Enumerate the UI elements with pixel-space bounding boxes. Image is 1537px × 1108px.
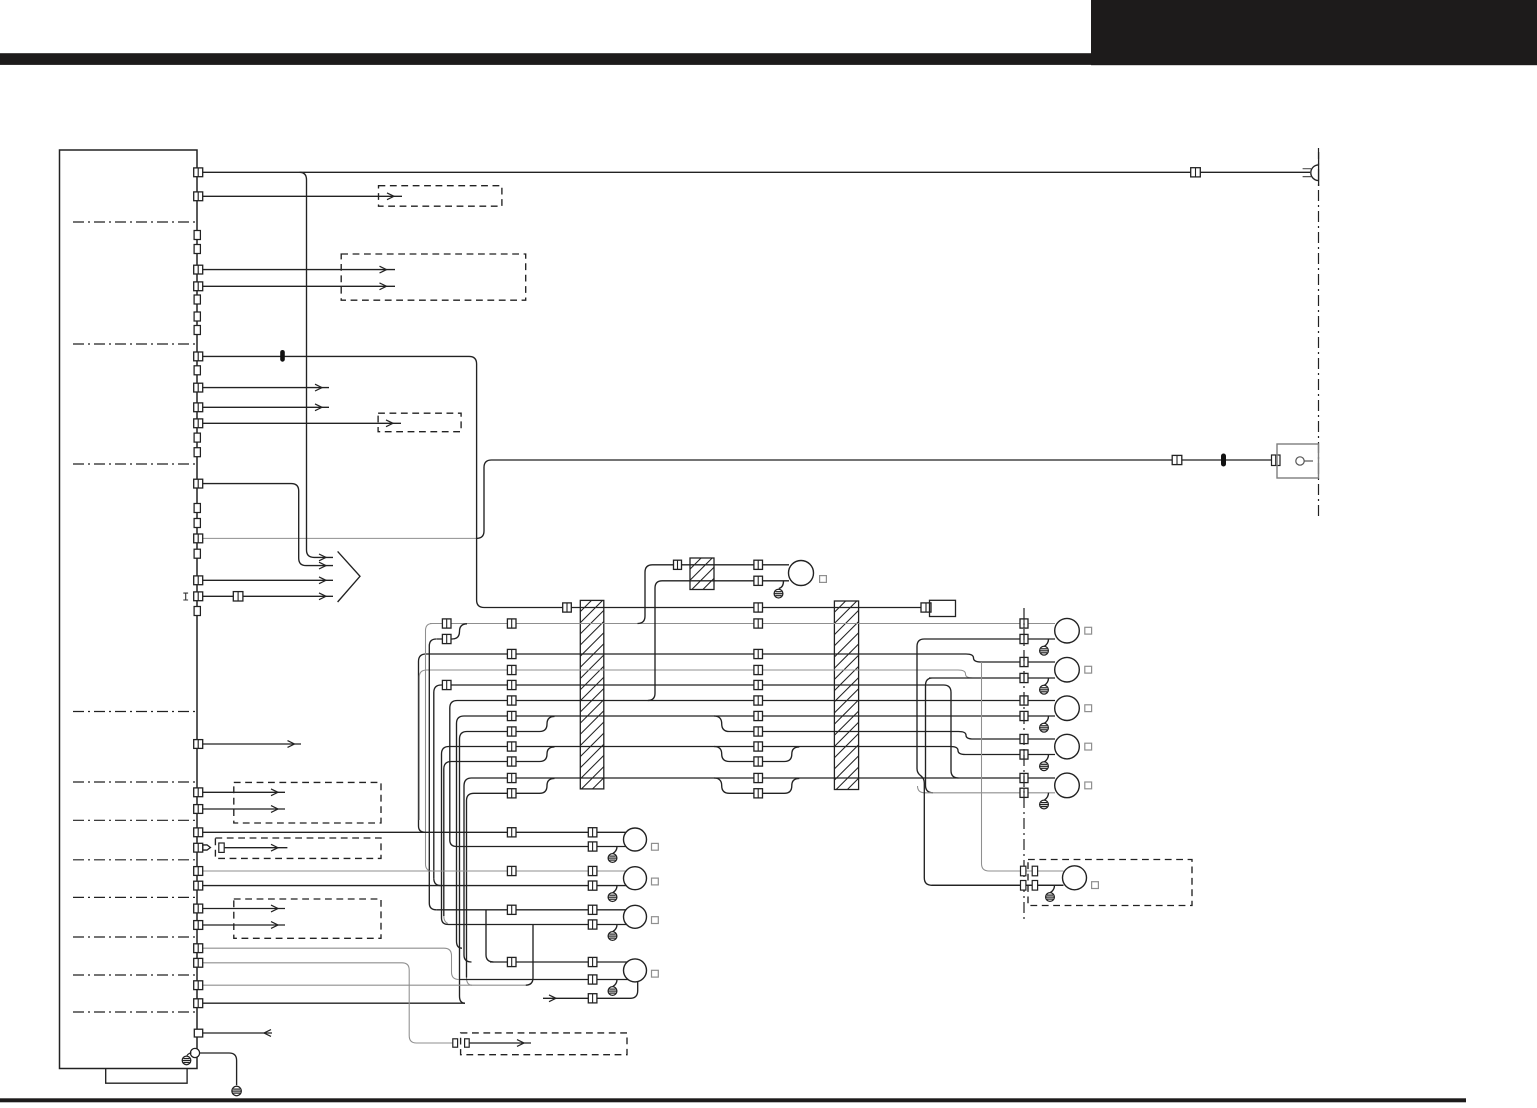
connector L1b <box>1020 634 1028 643</box>
connector E2 <box>754 665 763 674</box>
pin y1003 <box>194 999 203 1008</box>
relay box <box>1277 444 1319 478</box>
arrow pin404 <box>315 404 322 411</box>
connector D2 <box>754 649 763 658</box>
lamp 8 <box>624 905 647 928</box>
pin nc y508 <box>194 504 200 513</box>
pin y596 <box>194 592 203 601</box>
wire pin1032 <box>203 1032 272 1034</box>
pin ground circle <box>190 1048 199 1057</box>
riser I to lamp8 bottom <box>442 918 449 925</box>
wire D <box>419 654 1056 826</box>
wire pin268 <box>203 269 395 271</box>
connector H2 <box>754 711 763 720</box>
connector L4t <box>1020 734 1028 743</box>
arrow pin925 <box>271 922 278 929</box>
wire pin578 <box>203 579 333 581</box>
label square lamp6 <box>652 843 659 850</box>
dashed label box lamp10 <box>1028 860 1192 906</box>
connector L5b <box>1020 788 1028 797</box>
connector l8t2 <box>588 905 597 914</box>
ground stem lamp5 <box>1044 793 1048 800</box>
pin y848 <box>194 843 203 852</box>
connector E1 <box>507 665 516 674</box>
pin nc y611 <box>194 607 200 616</box>
ground unit wire <box>232 1086 241 1095</box>
wire pin925 <box>203 924 285 926</box>
wire Jp left <box>467 778 555 977</box>
connector pin595 <box>233 592 243 601</box>
section divider 2 <box>73 343 197 345</box>
pin nc y235 <box>194 231 200 240</box>
connector l8t1 <box>507 905 516 914</box>
section divider 11 <box>73 1011 197 1013</box>
lamp 6 <box>624 828 647 851</box>
riser Hp join row1003 <box>460 996 466 1003</box>
ground stem lamp6 <box>613 847 617 854</box>
connector top lamp 1 <box>674 560 682 569</box>
dash-dot solid at horn <box>1318 152 1320 186</box>
pin y172 <box>194 168 203 177</box>
bottom rule <box>0 1098 1466 1102</box>
connector Ip1 <box>507 757 516 766</box>
lamp 7 <box>624 867 647 890</box>
wire lamp7 bottom <box>203 885 628 887</box>
wire top lamp lower <box>648 581 789 701</box>
connector L3b <box>1020 711 1028 720</box>
connector A1 <box>563 603 572 612</box>
connector F2 <box>507 680 516 689</box>
wire G <box>450 701 1055 841</box>
pin y948 <box>194 944 203 953</box>
wire pin845 <box>225 847 288 849</box>
pin nc y370 <box>194 366 200 375</box>
wire relay run <box>476 460 1276 538</box>
connector B2 <box>507 619 516 628</box>
arrow pin845 <box>271 844 278 851</box>
pin nc y438 <box>194 433 200 442</box>
connector horn <box>1191 168 1201 177</box>
connector J1 <box>507 773 516 782</box>
wire pin595 <box>203 595 333 597</box>
wire lamp9 arrow row <box>543 981 638 998</box>
connector F3 <box>754 680 763 689</box>
wire pin792 <box>203 791 285 793</box>
pin y871 <box>194 867 203 876</box>
connector C1 <box>442 634 451 643</box>
arrow to chevron 1 <box>319 554 326 561</box>
ground stem lamp2 <box>1044 678 1048 685</box>
pin y886 <box>194 881 203 890</box>
pin nc y523 <box>194 519 200 528</box>
connector l9x <box>588 994 597 1003</box>
connector Jp2 <box>754 789 763 798</box>
pin y538 <box>194 534 203 543</box>
wire C <box>437 624 468 639</box>
horn symbol <box>1303 169 1312 177</box>
connector L2t <box>1020 657 1028 666</box>
ground stem lamp4 <box>1044 755 1048 762</box>
wire H <box>457 716 1056 941</box>
connector L3t <box>1020 696 1028 705</box>
wire lamp8 bottom <box>449 924 629 926</box>
riser G to lamp6 bottom <box>450 840 457 847</box>
arrow pin1032 <box>264 1030 271 1037</box>
riser Ip join <box>444 916 448 924</box>
pin y925 <box>194 921 203 930</box>
connector l7t1 <box>507 866 516 875</box>
pin y484 <box>194 479 203 488</box>
wire pin809 <box>203 808 285 810</box>
section divider 5 <box>73 781 197 783</box>
label square lamp5 <box>1085 782 1092 789</box>
relay contact <box>1296 457 1304 465</box>
arrow pin385 <box>315 384 322 391</box>
lamp 10 <box>1063 866 1087 890</box>
ground lamp7 <box>608 893 617 902</box>
wire lamp9 top <box>490 961 628 963</box>
label square lamp4 <box>1085 743 1092 750</box>
wire lamp10 top <box>989 870 1064 872</box>
black header bar <box>0 53 1537 65</box>
harness bar 2 <box>834 601 858 790</box>
pin y744 <box>194 740 203 749</box>
arrow pin809 <box>271 806 278 813</box>
connector B3 <box>754 619 763 628</box>
jog lamp8b to row985 <box>526 925 534 986</box>
wire F <box>434 685 959 878</box>
label square lamp9 <box>652 970 659 977</box>
splice relay run <box>1221 454 1226 467</box>
wire lamp8 top <box>436 909 628 911</box>
pin y908 <box>194 904 203 913</box>
connector bottom box 2 <box>465 1039 470 1047</box>
lamp 4 <box>1055 734 1080 759</box>
ground stem lamp3 <box>1044 716 1048 723</box>
connector I1 <box>507 742 516 751</box>
pin y792 <box>194 788 203 797</box>
wire pin484 <box>198 484 333 566</box>
wire lamp10 bottom <box>932 884 1064 886</box>
connector L5t <box>1020 773 1028 782</box>
wire riser lamp10 top <box>982 662 1064 871</box>
harness bar 1 <box>580 600 604 789</box>
connector F1 <box>442 680 451 689</box>
arrow to chevron 2 <box>319 562 326 569</box>
connector l8b <box>588 920 597 929</box>
wire lamp2 bottom <box>926 678 1056 793</box>
dashed label box D <box>215 838 381 858</box>
lamp top <box>789 561 814 586</box>
dash-dot line lamps <box>1023 608 1025 920</box>
arrow to chevron 3 <box>319 577 326 584</box>
connector l9t1 <box>507 957 516 966</box>
ground stem lamp8 <box>613 925 617 932</box>
wire J lamp9 tail <box>464 955 472 962</box>
pin y809 <box>194 805 203 814</box>
control unit box <box>60 150 198 1069</box>
wire pin985 <box>203 984 526 986</box>
connector Hp2 <box>754 727 763 736</box>
connector l10t2 <box>1032 866 1037 876</box>
riser Jp join row985 <box>467 978 473 986</box>
dashed label box B <box>378 413 461 432</box>
section divider 7 <box>73 859 197 861</box>
connector relay box <box>1272 455 1281 466</box>
wire pin196 <box>203 195 402 197</box>
lamp 3 <box>1055 696 1080 721</box>
lamp 5 <box>1055 773 1080 798</box>
connector Ip2 <box>754 757 763 766</box>
connector l6t2 <box>588 828 597 837</box>
arrow pin268 <box>380 266 387 273</box>
wire Hp right <box>714 716 1055 739</box>
connector Hp1 <box>507 727 516 736</box>
riser C to lamp8 top <box>429 639 436 910</box>
ground stem lamp9 <box>613 980 617 987</box>
ground lamp1 <box>1040 646 1049 655</box>
connector top lamp 2 <box>754 560 763 569</box>
wire pin1003 <box>203 1002 465 1004</box>
dash-dot line right <box>1318 148 1320 518</box>
connector l9b <box>588 975 597 984</box>
pin y388 <box>194 383 203 392</box>
pin nc y316 <box>194 312 200 321</box>
connector l10b1 <box>1021 881 1026 891</box>
ground lamp4 <box>1040 762 1049 771</box>
wire E <box>419 670 1020 820</box>
ground lamp3 <box>1040 723 1049 732</box>
connector top lamp 3 <box>754 576 763 585</box>
dashed label box A <box>341 254 526 300</box>
wire branch top lamp <box>638 565 790 624</box>
connector l10b2 <box>1032 881 1037 891</box>
pin y580 <box>194 576 203 585</box>
label square lamp10 <box>1092 882 1099 889</box>
dashed label box E <box>234 899 381 938</box>
connector G2 <box>754 696 763 705</box>
pin y286 <box>194 282 203 291</box>
pin single 1033 <box>194 1029 202 1037</box>
lamp 1 <box>1055 618 1080 643</box>
ground unit case <box>182 1056 191 1065</box>
wire bottom box <box>469 1042 531 1044</box>
wire lamp5 bottom <box>918 786 1056 793</box>
connector l6t1 <box>507 828 516 837</box>
connector I2 <box>754 742 763 751</box>
section divider 8 <box>73 896 197 898</box>
ground stem lamp1 <box>1044 639 1048 646</box>
pin nc y249 <box>194 245 200 254</box>
wire relay run gray <box>198 537 477 539</box>
connector L2b <box>1020 673 1028 682</box>
section divider 1 <box>73 221 197 223</box>
connector l6b <box>588 842 597 851</box>
ground lamp9 <box>608 987 617 996</box>
wire pin404 <box>203 406 329 408</box>
wire pin948 jog <box>203 948 459 979</box>
arrow lamp9 row <box>549 995 556 1002</box>
riser D to pin832 <box>419 826 426 832</box>
riser F to pin885 <box>434 878 441 885</box>
splice pin356 <box>280 350 285 362</box>
label square lamp1 <box>1085 627 1092 634</box>
lamp 9 <box>624 959 647 982</box>
wire A pin356 <box>198 356 929 607</box>
connector H1 <box>507 711 516 720</box>
pin y963 <box>194 958 203 967</box>
wire Ip left <box>444 747 555 916</box>
connector l9t2 <box>588 957 597 966</box>
section divider 4 <box>73 711 197 713</box>
wire lamp7 top <box>203 870 628 872</box>
label I <box>183 593 188 600</box>
dashed label box top <box>379 186 502 207</box>
arrow pin421 <box>386 420 393 427</box>
pin y423 <box>194 419 203 428</box>
pin y407 <box>194 403 203 412</box>
ground top lamp <box>774 589 783 598</box>
wire Ip right <box>714 747 799 762</box>
section divider 6 <box>73 819 197 821</box>
connector A2 <box>754 603 763 612</box>
arrow pin792 <box>271 789 278 796</box>
junction box A <box>930 600 956 616</box>
wire lamp6 bottom <box>457 846 628 848</box>
connector L4b <box>1020 750 1028 759</box>
wire J <box>464 778 1055 955</box>
connector l7t2 <box>588 866 597 875</box>
section divider 10 <box>73 974 197 976</box>
connector pin845 <box>219 843 224 852</box>
label square lamp7 <box>652 878 659 885</box>
section divider 3 <box>73 463 197 465</box>
section divider 9 <box>73 936 197 938</box>
wire pin908 <box>203 908 285 910</box>
connector Jp1 <box>507 789 516 798</box>
arrow pin744 <box>288 741 295 748</box>
connector l10t1 <box>1021 866 1026 876</box>
ground lamp6 <box>608 854 617 863</box>
dashed label box C <box>234 782 381 823</box>
label square lamp8 <box>652 917 659 924</box>
pin y270 <box>194 265 203 274</box>
wire pin385 <box>203 387 329 389</box>
chevron symbol <box>338 551 360 602</box>
arrow to chevron 4 <box>319 593 326 600</box>
wire B <box>430 623 1055 625</box>
wire pin421 <box>203 422 401 424</box>
arrow pin285 <box>380 283 387 290</box>
ground lamp5 <box>1040 800 1049 809</box>
connector relay run <box>1172 455 1182 464</box>
pin nc y452 <box>194 448 200 457</box>
wire Hp left <box>460 716 555 996</box>
connector G1 <box>507 696 516 705</box>
lamp 2 <box>1055 657 1080 682</box>
pin y196 <box>194 192 203 201</box>
wire pin963 to bottom box <box>203 963 453 1043</box>
ground stem lamp10 <box>1050 885 1054 892</box>
wire branch pin172 <box>300 172 334 557</box>
wire pin ground <box>200 1053 237 1085</box>
connector A3 <box>921 603 931 612</box>
jog lamp8t to lamp9t <box>486 910 494 962</box>
connector B1 <box>442 619 451 628</box>
connector B4 <box>1020 619 1028 628</box>
pin nc y300 <box>194 295 200 304</box>
wire pin285 <box>203 285 395 287</box>
wire lamp1 bottom <box>917 639 1063 885</box>
connector J2 <box>754 773 763 782</box>
arrow bottom box <box>517 1040 524 1047</box>
harness box small <box>690 558 714 590</box>
ground lamp10 <box>1046 893 1055 902</box>
wire pin744 <box>203 743 301 745</box>
ground stem top lamp <box>779 581 784 589</box>
connector D1 <box>507 649 516 658</box>
arrow pin908 <box>271 905 278 912</box>
ground unit case stem <box>187 1053 192 1056</box>
connector l7b <box>588 881 597 890</box>
wire lamp9 bottom <box>459 979 628 981</box>
pin y832 <box>194 828 203 837</box>
wire lamp6 top <box>203 831 628 833</box>
ground stem lamp7 <box>613 886 617 893</box>
riser B to pin870 <box>426 624 433 872</box>
ground lamp8 <box>608 932 617 941</box>
wire horn feed <box>203 171 1310 173</box>
wire I <box>442 747 1056 919</box>
ground lamp2 <box>1040 685 1049 694</box>
dashed label box F <box>461 1033 627 1055</box>
pin y356 <box>194 352 203 361</box>
connector bottom box 1 <box>453 1039 458 1047</box>
pin y985 <box>194 981 203 990</box>
riser H join row948 <box>457 941 463 948</box>
arrow pin196 <box>387 193 394 200</box>
label square lamp2 <box>1085 666 1092 673</box>
pin nc y330 <box>194 326 200 335</box>
black header title block <box>1091 0 1537 65</box>
label square lamp3 <box>1085 705 1092 712</box>
wire Jp right <box>714 778 799 793</box>
pin845 flag <box>203 845 211 850</box>
label square top lamp <box>820 576 827 583</box>
pin nc y554 <box>194 549 200 558</box>
control unit bottom tab <box>106 1069 187 1084</box>
